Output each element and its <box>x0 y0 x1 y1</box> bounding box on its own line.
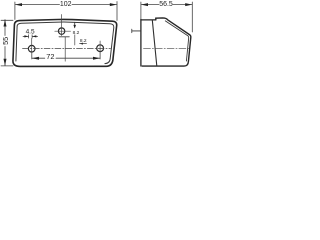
svg-text:8.2: 8.2 <box>80 38 87 44</box>
tick under T2 <box>80 43 87 45</box>
dim 55 line <box>4 20 6 36</box>
lamp front view inner lens contour <box>16 22 114 64</box>
bottom hole H3 circle <box>97 45 104 52</box>
dim 72 arrow left <box>32 57 39 60</box>
dim 55 arrow up <box>4 20 7 27</box>
dim 72 arrow right <box>93 57 100 60</box>
side view interior vertical (housing/lens split) <box>152 20 157 66</box>
side view center dash-dot line <box>144 47 191 49</box>
dim 56.5 arrow left <box>141 3 148 6</box>
top hole H1 vertical center line <box>61 15 63 36</box>
svg-text:56.5: 56.5 <box>159 1 173 8</box>
svg-text:55: 55 <box>1 37 10 45</box>
leader below T1 <box>74 35 76 45</box>
side view lens outline <box>142 18 191 66</box>
dim 72 line <box>32 57 45 59</box>
slot center vertical leader <box>64 37 66 61</box>
bottom hole H2 circle <box>28 45 35 52</box>
hole dia down-arrow <box>74 22 76 27</box>
horizontal center line through holes (dash-dot) <box>23 47 111 49</box>
dim 56.5 extension line left <box>140 2 142 20</box>
svg-text:8.2: 8.2 <box>73 30 80 36</box>
mounting stud on back <box>132 30 141 32</box>
svg-text:102: 102 <box>60 1 72 8</box>
dim 102 arrow left <box>15 3 22 6</box>
dim 102 extension line left <box>14 2 16 20</box>
bottom hole H2 vertical center line <box>31 38 33 52</box>
top hole H1 circle <box>58 28 64 34</box>
dim 55 extension line top <box>1 19 13 21</box>
dim 56.5 extension line right <box>191 2 193 32</box>
dim 55 arrow down <box>4 59 7 66</box>
side view flange top edge <box>141 19 156 21</box>
slot width line under H1 <box>59 36 69 38</box>
svg-text:72: 72 <box>46 52 54 61</box>
dim 72 riser left <box>31 52 33 59</box>
dim 56.5 line <box>141 4 159 6</box>
dim 4.5 arrows and ticks <box>23 35 28 37</box>
side view lens inner line <box>165 21 188 61</box>
dim 56.5 arrow right <box>185 3 192 6</box>
dim 102 extension line right <box>116 2 118 21</box>
bottom hole H3 vertical center line <box>99 41 101 52</box>
top hole H1 horizontal center line <box>55 30 71 32</box>
dim 72 riser right <box>99 52 101 59</box>
lamp front view outer contour <box>13 19 117 66</box>
dim 55 extension line bottom <box>1 65 13 67</box>
dim 102 arrow right <box>110 3 117 6</box>
dim 102 line <box>15 4 60 6</box>
svg-text:4.5: 4.5 <box>26 28 35 35</box>
side view back edge <box>140 20 142 67</box>
